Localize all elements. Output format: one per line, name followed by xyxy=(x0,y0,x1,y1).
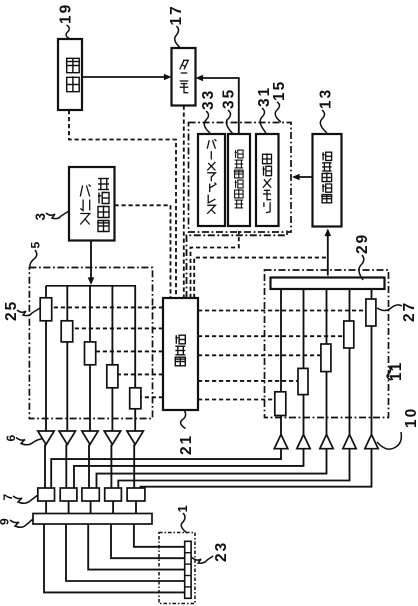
svg-text:1: 1 xyxy=(175,503,190,512)
leader for 1 xyxy=(181,513,187,533)
text: generator circuit (hassei kairo) xyxy=(97,179,110,232)
wire: switch 1 to selector 9 xyxy=(45,501,47,514)
leader for 31 xyxy=(260,108,266,133)
receive amplifier 10-5 xyxy=(365,435,378,449)
wire: ROI box top to monitor xyxy=(198,78,239,134)
leader for 25 xyxy=(17,308,40,316)
wire: delay element R5 down to receive amp xyxy=(371,326,373,435)
riser: monitor to control unit (dashed) xyxy=(183,106,185,299)
console box 19 xyxy=(58,39,82,110)
wire: switch 5 to selector 9 xyxy=(135,501,137,514)
riser: control unit to ROI box bottom (dashed) xyxy=(191,231,239,298)
receive amplifier 10-2 xyxy=(297,435,310,449)
leader for 17 xyxy=(175,26,181,48)
wire: delay element L2 to transmit amp xyxy=(66,342,68,431)
wire: adder box down to delay element R3 xyxy=(326,289,328,344)
svg-text:6: 6 xyxy=(4,433,18,442)
wire: adder 29 to signal processor xyxy=(327,230,329,276)
selector 9 xyxy=(33,514,152,525)
control line to delay L4 (dashed) xyxy=(118,373,163,375)
leader for 6 xyxy=(16,438,43,445)
arrowhead onto delay bus xyxy=(88,277,95,285)
control line to delay L1 (dashed) xyxy=(52,306,163,308)
leader for 19 xyxy=(66,25,70,39)
leader for 7 xyxy=(13,495,38,503)
switch element 7-5 xyxy=(127,488,145,501)
dashed enclosure 11 (receive delay group) xyxy=(265,270,389,418)
leader for 5 xyxy=(30,250,37,268)
text: monitor (monita) xyxy=(180,60,189,92)
wire: bus drop to delay element L4 xyxy=(111,286,113,365)
wire: selector to probe element 3 xyxy=(88,524,185,570)
wire: selector to probe element 2 xyxy=(66,524,185,581)
wire: delay element L3 to transmit amp xyxy=(89,365,91,431)
delay element 25-L4 xyxy=(107,365,118,388)
arrowhead into memory group xyxy=(292,174,300,181)
leader for 9 xyxy=(10,519,33,527)
text: control unit xyxy=(175,335,187,366)
leader for 23 xyxy=(191,556,213,563)
transmit amplifier 6-3 xyxy=(82,431,98,445)
wire: console 19 to monitor xyxy=(82,76,169,78)
wire: transmit amp 3 to switch 3 xyxy=(88,445,90,489)
wire: bus drop to delay element L2 xyxy=(66,286,68,321)
wire: transmit delay bus xyxy=(46,285,136,287)
control line to delay L2 (dashed) xyxy=(73,327,163,329)
dashed enclosure 15 (memory/address group) xyxy=(189,123,292,233)
text: image memory xyxy=(263,153,272,212)
control unit box 21 xyxy=(163,298,198,410)
riser: control unit to signal processor line (dashed) xyxy=(194,258,328,298)
ROI setting box 35 xyxy=(228,134,250,226)
svg-text:33: 33 xyxy=(200,89,217,110)
wire: bus drop to delay element L1 xyxy=(45,286,47,298)
leader for 21 xyxy=(181,411,186,429)
text: signal processing xyxy=(321,152,332,203)
receive amplifier 10-4 xyxy=(343,435,356,449)
delay element 25-L2 xyxy=(61,321,72,342)
wire: receive amp 2 crossover to switch 2 xyxy=(74,449,304,488)
text: pulse (parusu) xyxy=(80,185,90,225)
svg-text:3: 3 xyxy=(33,211,48,221)
wire: delay element R3 down to receive amp xyxy=(326,372,328,435)
wire: delay element R4 down to receive amp xyxy=(349,348,351,435)
riser: pulse circuit to control unit (dashed) xyxy=(115,205,171,298)
delay element 25-L5 xyxy=(130,388,141,409)
leader for 3 xyxy=(46,211,69,219)
control line to delay R2 (dashed) xyxy=(198,380,298,382)
wire: selector to probe element 4 xyxy=(111,524,185,558)
control line to delay L5 (dashed) xyxy=(141,396,163,398)
wire: receive amp 3 crossover to switch 3 xyxy=(97,449,327,488)
arrowhead into monitor left xyxy=(164,74,172,81)
wire: selector to probe element 1 xyxy=(44,524,185,592)
wire: bus drop to delay element L3 xyxy=(89,286,91,342)
wire: delay element L4 to transmit amp xyxy=(111,388,113,431)
delay element 27-R2 xyxy=(298,368,308,394)
control line to delay L3 (dashed) xyxy=(96,350,163,352)
switch element 7-1 xyxy=(38,488,55,501)
wire: receive amp 5 crossover to switch 5 xyxy=(141,449,372,488)
leader for 27 xyxy=(377,305,402,311)
wire: switch 3 to selector 9 xyxy=(90,501,92,514)
wire: adder box down to delay element R4 xyxy=(349,289,351,321)
dashed enclosure 1 (probe) xyxy=(159,533,195,604)
wire: delay element L5 to transmit amp xyxy=(134,409,136,431)
delay element 27-R5 xyxy=(366,299,376,326)
wire: transmit amp 1 to switch 1 xyxy=(44,445,46,489)
text: ROI setting xyxy=(234,150,244,208)
leader for 33 xyxy=(204,111,210,133)
delay element 25-L3 xyxy=(85,342,96,365)
wire: transmit amp 2 to switch 2 xyxy=(65,445,67,489)
leader for 35 xyxy=(226,110,233,134)
wire: bus drop to delay element L5 xyxy=(134,286,136,388)
svg-text:10: 10 xyxy=(403,407,418,428)
delay element 25-L1 xyxy=(40,298,52,321)
control line to delay R1 (dashed) xyxy=(198,399,275,401)
wire: adder box down to delay element R2 xyxy=(303,289,305,368)
transmit amplifier 6-5 xyxy=(127,431,143,445)
riser: control unit to memory group right (dash-dot) xyxy=(187,230,288,298)
pulse generator box 3 xyxy=(69,167,115,241)
delay element 27-R3 xyxy=(321,344,331,372)
receive amplifier 10-1 xyxy=(274,435,288,449)
text: console label xyxy=(66,58,80,91)
arrowhead into monitor right xyxy=(196,75,204,82)
svg-text:21: 21 xyxy=(178,434,195,455)
transducer element stack 23 xyxy=(185,541,191,598)
wire: signal processor to image memory xyxy=(294,176,313,178)
text: beam address xyxy=(207,139,216,214)
monitor box 17 xyxy=(172,48,196,106)
leader for 13 xyxy=(320,110,327,133)
wire: delay element L1 to transmit amp xyxy=(45,321,47,431)
switch element 7-3 xyxy=(82,488,99,501)
switch element 7-4 xyxy=(105,488,122,501)
wire: delay element R1 down to receive amp xyxy=(280,416,282,435)
receive amplifier 10-3 xyxy=(320,435,333,449)
svg-text:19: 19 xyxy=(58,3,75,24)
wire: switch 4 to selector 9 xyxy=(112,501,114,514)
wire: transmit amp 4 to switch 4 xyxy=(110,445,112,489)
svg-text:29: 29 xyxy=(354,233,371,254)
wire: receive amp 4 crossover to switch 4 xyxy=(118,449,349,488)
wire: adder box down to delay element R5 xyxy=(371,289,373,299)
adder box 29 xyxy=(271,278,385,290)
wire: adder box down to delay element R1 xyxy=(280,289,282,392)
svg-text:13: 13 xyxy=(318,88,335,109)
svg-text:5: 5 xyxy=(29,240,43,249)
wire: transmit amp 5 to switch 5 xyxy=(133,445,135,489)
transmit amplifier 6-4 xyxy=(104,431,121,445)
leader for 15 xyxy=(275,102,281,122)
svg-text:27: 27 xyxy=(401,301,418,322)
transmit amplifier 6-1 xyxy=(38,431,54,445)
control line to delay R5 (dashed) xyxy=(198,310,366,312)
control line to delay R4 (dashed) xyxy=(198,335,344,337)
svg-text:35: 35 xyxy=(221,88,238,109)
wire: receive amp 1 crossover to switch 1 xyxy=(51,449,281,488)
arrowhead into signal processor bottom xyxy=(325,229,332,237)
control line to delay R3 (dashed) xyxy=(198,354,321,356)
image memory box 31 xyxy=(256,134,279,226)
svg-text:17: 17 xyxy=(168,4,185,25)
leader for 10 xyxy=(377,432,401,449)
beam address box 33 xyxy=(198,134,225,226)
delay element 27-R1 xyxy=(275,392,286,416)
switch element 7-2 xyxy=(60,488,77,501)
delay element 27-R4 xyxy=(344,321,354,348)
leader for 29 xyxy=(359,255,364,280)
riser: console 19 to control unit (dashed) xyxy=(69,110,176,298)
transmit amplifier 6-2 xyxy=(59,431,76,445)
svg-text:15: 15 xyxy=(271,80,288,101)
wire: switch 2 to selector 9 xyxy=(68,501,70,514)
wire: pulse circuit output down to delay bus xyxy=(90,241,92,281)
dashed enclosure 5 (transmit delay group) xyxy=(29,268,152,419)
wire: selector to probe element 5 xyxy=(134,524,185,547)
signal processor box 13 xyxy=(313,134,342,227)
wire: delay element R2 down to receive amp xyxy=(303,395,305,435)
svg-text:23: 23 xyxy=(213,541,230,562)
leader for 11 xyxy=(387,366,391,380)
